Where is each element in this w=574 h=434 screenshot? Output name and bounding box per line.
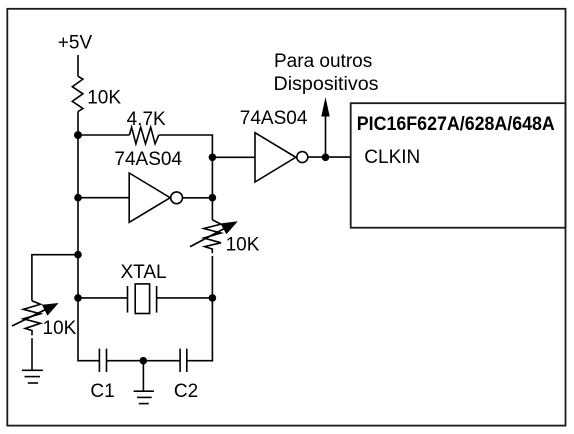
wire inverter1 input [78, 197, 129, 199]
node E junction at CLKIN wire [322, 154, 330, 162]
wire inverter2 input [212, 156, 255, 158]
inverter U2 bubble [297, 152, 308, 163]
wire inverter2 output to PIC CLKIN [308, 156, 351, 158]
svg-text:10K: 10K [87, 88, 121, 109]
PIC box PIC16F627A/628A/648A [351, 103, 566, 228]
op-amp U1 inverter 74AS04 triangle [129, 173, 170, 222]
wire RV2 to ground [31, 338, 33, 370]
potentiometer RV2 zigzag (left) [23, 301, 40, 336]
potentiometer RV2 arrow [12, 308, 48, 326]
wire inverter1 output to right bus [183, 197, 213, 199]
node D junction left bus at inverter1 input [74, 194, 82, 202]
capacitor C1 [99, 349, 106, 372]
arrowhead to other devices [321, 97, 329, 117]
svg-text:Dispositivos: Dispositivos [274, 74, 379, 95]
wire right bus from RV1 down to C2 row [187, 256, 213, 361]
svg-text:Para outros: Para outros [274, 51, 372, 72]
node G junction left bus at XTAL row [74, 294, 82, 302]
wire 4.7K row right segment and right bus down [159, 135, 213, 220]
svg-text:10K: 10K [43, 318, 77, 339]
node A junction left bus at 4.7K [74, 131, 82, 139]
node H junction right bus at XTAL row [209, 294, 217, 302]
ground (center) [134, 391, 154, 403]
svg-text:+5V: +5V [58, 32, 93, 53]
resistor R1 10K vertical [72, 76, 83, 111]
wire arrow stem to other devices [325, 114, 327, 157]
capacitor C2 [180, 349, 187, 372]
svg-text:CLKIN: CLKIN [364, 147, 420, 168]
svg-text:C2: C2 [174, 381, 198, 402]
node C junction right bus at inverter1 output [209, 194, 217, 202]
wire center junction to ground [142, 361, 144, 392]
potentiometer RV1 zigzag (middle, on right bus) [204, 220, 221, 253]
wire XTAL right [157, 297, 213, 299]
wire C1 to center junction [107, 360, 181, 362]
wire branch to left potentiometer RV2 [32, 255, 78, 301]
svg-text:10K: 10K [226, 235, 260, 256]
ground (left) [22, 370, 43, 383]
node I junction C1-C2 center [140, 357, 148, 365]
svg-text:74AS04: 74AS04 [114, 149, 182, 170]
op-amp U2 inverter 74AS04 triangle [255, 133, 296, 182]
potentiometer RV1 arrow [190, 227, 227, 247]
crystal X1 XTAL [128, 284, 157, 314]
svg-text:XTAL: XTAL [121, 262, 167, 283]
wire XTAL left [78, 297, 128, 299]
wire from +5V down to resistor R1 [77, 55, 79, 76]
wire left bus from R1 down to C1 row [78, 112, 99, 361]
inverter U1 bubble [171, 192, 183, 204]
resistor R2 4.7K horizontal [129, 127, 158, 144]
svg-text:4.7K: 4.7K [127, 109, 166, 130]
node F junction left bus branch to RV2 [74, 251, 82, 259]
wire 4.7K row left segment [78, 134, 129, 136]
node B junction right bus at inverter2 input [209, 154, 217, 162]
svg-text:74AS04: 74AS04 [240, 108, 308, 129]
svg-text:PIC16F627A/628A/648A: PIC16F627A/628A/648A [357, 114, 555, 135]
svg-text:C1: C1 [90, 381, 114, 402]
